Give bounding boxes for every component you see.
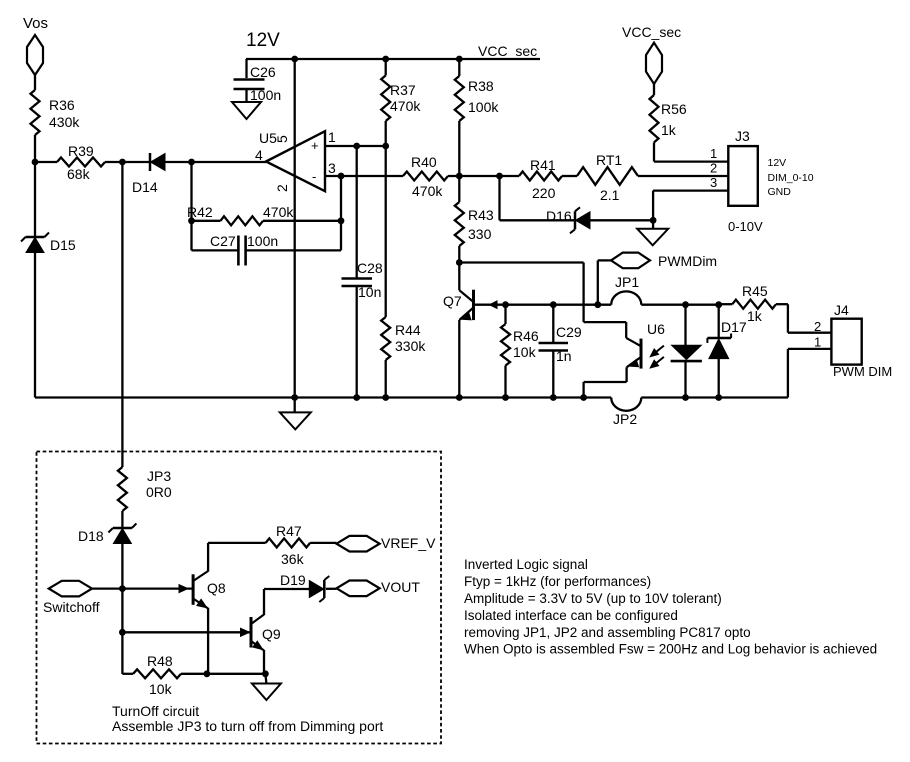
resistor R38 xyxy=(458,59,460,76)
svg-text:220: 220 xyxy=(532,185,556,201)
svg-text:R44: R44 xyxy=(395,322,421,338)
svg-text:-: - xyxy=(312,169,316,184)
svg-text:12V: 12V xyxy=(768,157,787,169)
junction -in/R42 xyxy=(338,173,345,180)
svg-text:Amplitude = 3.3V to 5V (up to: Amplitude = 3.3V to 5V (up to 10V tolera… xyxy=(464,591,722,606)
junction R41/D16 xyxy=(496,173,503,180)
svg-text:D18: D18 xyxy=(78,528,104,544)
port VOUT xyxy=(337,581,380,597)
svg-text:GND: GND xyxy=(768,186,792,198)
resistor R42 xyxy=(192,220,221,222)
wire R56 to J3 pin1 xyxy=(653,142,655,161)
resistor R48 xyxy=(133,669,181,678)
resistor R40 xyxy=(403,172,448,181)
wire D18 down xyxy=(121,544,123,675)
svg-text:10k: 10k xyxy=(149,681,173,697)
junction Q9 emitter xyxy=(262,670,269,677)
12V rail wire xyxy=(246,58,540,60)
svg-text:4: 4 xyxy=(255,147,263,163)
svg-text:D16: D16 xyxy=(546,208,572,224)
svg-text:2: 2 xyxy=(274,184,290,192)
junction R42 right xyxy=(338,217,345,224)
svg-text:Switchoff: Switchoff xyxy=(43,599,100,615)
J4 pin1 wire xyxy=(788,348,832,350)
resistor R43 xyxy=(455,202,464,246)
wire output node down xyxy=(190,162,192,250)
svg-text:R47: R47 xyxy=(276,523,302,539)
node D14/op-amp output xyxy=(188,159,195,166)
junction R46 top xyxy=(502,301,509,308)
svg-text:2.1: 2.1 xyxy=(600,187,620,203)
svg-text:J4: J4 xyxy=(834,302,849,318)
svg-text:1: 1 xyxy=(710,146,717,161)
junction +in/R37/R44 xyxy=(382,143,389,150)
ground in TurnOff circuit xyxy=(265,674,266,684)
Q9 base wire xyxy=(122,631,251,633)
jumper JP2 xyxy=(611,398,641,411)
resistor R39 xyxy=(35,161,57,163)
svg-text:470k: 470k xyxy=(263,204,294,220)
svg-text:C29: C29 xyxy=(556,324,582,340)
svg-text:removing JP1, JP2 and assembli: removing JP1, JP2 and assembling PC817 o… xyxy=(464,625,751,640)
wire R41 node down to D16 xyxy=(498,176,500,220)
junction PWMDim xyxy=(594,301,601,308)
svg-text:Ftyp = 1kHz (for performances): Ftyp = 1kHz (for performances) xyxy=(464,574,651,589)
port Switchoff xyxy=(49,581,92,597)
junction 12V/R38 xyxy=(456,56,463,63)
svg-text:1n: 1n xyxy=(556,348,572,364)
junction D17 top xyxy=(715,301,722,308)
junction 12V/R37 xyxy=(382,56,389,63)
jumper JP1 xyxy=(611,291,641,304)
svg-text:D19: D19 xyxy=(280,572,306,588)
wire D15 to bottom rail xyxy=(34,252,36,398)
J3 pin3 wire to ground xyxy=(653,189,728,191)
capacitor C29 xyxy=(552,305,554,342)
connector J3 xyxy=(728,146,758,206)
svg-text:R38: R38 xyxy=(468,78,494,94)
wire JP3 to D18 xyxy=(121,511,123,528)
svg-text:Q9: Q9 xyxy=(262,626,281,642)
svg-text:330k: 330k xyxy=(395,338,426,354)
svg-text:D15: D15 xyxy=(50,237,76,253)
svg-text:36k: 36k xyxy=(281,551,305,567)
junction pin3/D16 xyxy=(650,217,657,224)
transistor Q9 xyxy=(250,617,253,648)
svg-text:R43: R43 xyxy=(468,207,494,223)
svg-text:1: 1 xyxy=(814,335,821,350)
port VREF_V xyxy=(337,536,380,552)
zener D17 xyxy=(718,305,720,338)
capacitor C27 xyxy=(192,249,238,251)
svg-text:RT1: RT1 xyxy=(596,152,622,168)
svg-text:R46: R46 xyxy=(513,328,539,344)
svg-text:100k: 100k xyxy=(468,99,499,115)
svg-text:Q7: Q7 xyxy=(443,293,462,309)
svg-text:1k: 1k xyxy=(747,308,763,324)
wire R43 node to U6 collector xyxy=(459,261,583,263)
junction base rail Q9 xyxy=(119,629,126,636)
svg-text:D14: D14 xyxy=(132,179,158,195)
svg-text:0-10V: 0-10V xyxy=(728,219,763,234)
junction R43/Q7 xyxy=(456,259,463,266)
junction LED top xyxy=(682,301,689,308)
svg-text:10k: 10k xyxy=(513,344,537,360)
ground rail xyxy=(35,396,611,398)
svg-text:TurnOff circuit: TurnOff circuit xyxy=(112,703,199,719)
svg-text:PWMDim: PWMDim xyxy=(658,253,717,269)
svg-text:C28: C28 xyxy=(357,260,383,276)
svg-text:470k: 470k xyxy=(390,98,421,114)
Q9 emitter wire xyxy=(263,650,265,674)
svg-text:Vos: Vos xyxy=(23,15,48,32)
resistor R36 xyxy=(31,90,40,135)
svg-text:DIM_0-10: DIM_0-10 xyxy=(768,172,814,184)
svg-text:R56: R56 xyxy=(661,101,687,117)
svg-text:1k: 1k xyxy=(661,122,677,138)
wire node to D15 xyxy=(34,162,36,237)
op-amp U5 xyxy=(266,131,325,191)
diode D14 xyxy=(122,161,150,163)
Q8 emitter wire xyxy=(207,608,209,674)
resistor R41 xyxy=(519,172,562,181)
svg-text:12V: 12V xyxy=(246,30,280,51)
opto LED of U6 xyxy=(684,305,686,346)
svg-text:430k: 430k xyxy=(49,114,80,130)
svg-text:Inverted Logic signal: Inverted Logic signal xyxy=(464,557,588,572)
junction +in/C28 xyxy=(353,143,360,150)
junction R40/R43/R38 xyxy=(456,173,463,180)
ground at J3 xyxy=(652,220,654,229)
Q7 base wire xyxy=(475,304,506,306)
svg-text:When Opto is assembled Fsw = 2: When Opto is assembled Fsw = 200Hz and L… xyxy=(464,642,877,657)
wire base rail xyxy=(506,304,612,306)
junction Switchoff/D18 xyxy=(119,585,126,592)
capacitor C26 xyxy=(245,59,247,78)
ground at C26 xyxy=(232,102,261,119)
svg-text:JP3: JP3 xyxy=(147,468,171,484)
svg-text:2: 2 xyxy=(710,161,717,176)
svg-text:VCC_sec: VCC_sec xyxy=(478,43,537,59)
svg-text:100n: 100n xyxy=(250,87,281,103)
connector J4 xyxy=(787,304,789,333)
svg-text:C27: C27 xyxy=(210,233,236,249)
svg-text:D17: D17 xyxy=(721,319,747,335)
Q9 collector wire xyxy=(263,589,265,615)
node Vos divider xyxy=(32,159,39,166)
wire R36 to node xyxy=(34,135,36,162)
svg-text:0R0: 0R0 xyxy=(146,484,172,500)
transistor Q7 xyxy=(472,290,475,320)
wire U5 output xyxy=(192,161,267,163)
wire -in down xyxy=(340,176,342,250)
zener D15 xyxy=(26,238,44,253)
svg-text:+: + xyxy=(311,138,319,153)
transistor Q8 xyxy=(192,574,195,605)
Q8 base wire xyxy=(122,587,193,589)
junction 12V/U5 xyxy=(291,56,298,63)
junction R48/Q8 emitter xyxy=(204,670,211,677)
light arrows xyxy=(651,346,664,356)
svg-text:3: 3 xyxy=(710,175,717,190)
svg-text:330: 330 xyxy=(468,226,492,242)
wire Switchoff to node xyxy=(92,587,122,589)
svg-text:JP1: JP1 xyxy=(615,274,639,290)
resistor R56 xyxy=(650,95,659,142)
resistor R46 xyxy=(504,305,506,324)
svg-text:Q8: Q8 xyxy=(207,580,226,596)
wire node down to JP3 xyxy=(121,162,123,467)
wire D18 line to R48 xyxy=(122,673,133,675)
zener D16 xyxy=(576,212,591,229)
junction C29 top xyxy=(550,301,557,308)
svg-text:C26: C26 xyxy=(250,64,276,80)
opto transistor U6 xyxy=(584,321,627,323)
svg-text:R40: R40 xyxy=(411,154,437,170)
wire R37/R44 node down xyxy=(385,146,387,317)
arrowhead on Q7 base xyxy=(490,301,498,309)
svg-text:U6: U6 xyxy=(647,321,665,337)
svg-text:1: 1 xyxy=(328,129,336,145)
svg-text:470k: 470k xyxy=(412,183,443,199)
svg-text:10n: 10n xyxy=(358,284,381,300)
svg-text:68k: 68k xyxy=(67,166,91,182)
svg-text:R42: R42 xyxy=(187,204,213,220)
svg-text:3: 3 xyxy=(328,160,336,176)
wire U5 power pins 5-2 xyxy=(294,59,296,398)
rail junctions xyxy=(291,394,298,401)
resistor R45 xyxy=(719,303,733,305)
svg-text:R41: R41 xyxy=(530,157,556,173)
svg-text:R39: R39 xyxy=(68,143,94,159)
resistor JP3 xyxy=(118,467,127,511)
svg-text:VOUT: VOUT xyxy=(381,579,420,595)
junction R42 left xyxy=(188,217,195,224)
svg-text:R45: R45 xyxy=(742,283,768,299)
resistor R44 xyxy=(381,317,390,360)
svg-text:R37: R37 xyxy=(390,82,416,98)
svg-text:J3: J3 xyxy=(735,128,750,144)
svg-text:R48: R48 xyxy=(147,653,173,669)
zener D18 xyxy=(113,529,131,544)
svg-text:Isolated interface can be conf: Isolated interface can be configured xyxy=(464,608,678,623)
svg-text:2: 2 xyxy=(814,319,821,334)
node R39/D14 xyxy=(119,159,126,166)
wire R43 node to Q7 collector xyxy=(458,263,460,291)
zener D19 xyxy=(309,581,324,598)
TurnOff circuit dashed box xyxy=(37,452,442,744)
svg-text:VREF_V: VREF_V xyxy=(381,535,436,551)
svg-text:Assemble JP3 to turn off from: Assemble JP3 to turn off from Dimming po… xyxy=(112,718,383,734)
svg-text:JP2: JP2 xyxy=(613,411,637,427)
capacitor C28 xyxy=(342,277,373,280)
port PWMDim xyxy=(597,260,599,304)
wire +in node down to C28 xyxy=(356,146,358,278)
pin 3 wire (- input) xyxy=(325,175,403,177)
resistor R47 xyxy=(266,538,311,547)
svg-text:5: 5 xyxy=(274,135,290,143)
pin 1 wire (+ input) xyxy=(325,145,386,147)
svg-text:PWM DIM: PWM DIM xyxy=(833,364,892,379)
Q8 collector wire xyxy=(207,543,209,572)
svg-text:VCC_sec: VCC_sec xyxy=(622,24,681,40)
resistor R37 xyxy=(385,59,387,75)
main ground symbol xyxy=(294,398,296,413)
svg-text:100n: 100n xyxy=(247,233,278,249)
thermistor RT1 xyxy=(577,167,638,185)
svg-text:R36: R36 xyxy=(49,97,75,113)
